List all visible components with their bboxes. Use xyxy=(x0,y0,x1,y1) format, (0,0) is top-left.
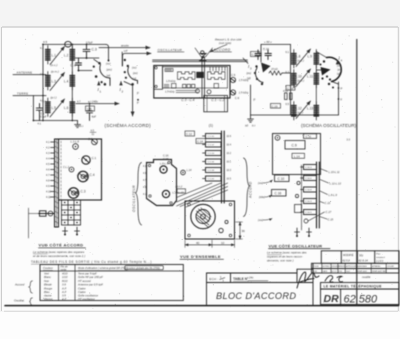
svg-text:C.9: C.9 xyxy=(292,143,297,147)
wire: left vertical bus xyxy=(42,44,44,120)
svg-text:Blindé: Blindé xyxy=(44,283,52,287)
svg-text:C.10.5: C.10.5 xyxy=(305,212,312,214)
svg-text:(vis): (vis) xyxy=(258,181,263,185)
drawing frame bottom line xyxy=(5,305,398,307)
svg-text:L.12-L.13: L.12-L.13 xyxy=(330,181,342,185)
svg-text:sortie: sortie xyxy=(61,268,68,271)
wire: terre rail xyxy=(13,95,46,97)
left end cap xyxy=(154,66,163,90)
node P xyxy=(338,87,340,89)
svg-text:2.2.F.3: 2.2.F.3 xyxy=(375,260,384,263)
small parts left of stack xyxy=(297,181,300,184)
svg-text:C.19: C.19 xyxy=(272,104,278,108)
svg-text:Terre par 5 kpF: Terre par 5 kpF xyxy=(78,272,97,276)
note ensemble line 2 boxed xyxy=(125,266,164,270)
top right screw circle xyxy=(92,139,98,145)
panel outline xyxy=(273,134,321,175)
svg-text:TERRE: TERRE xyxy=(17,92,28,96)
svg-text:4.1: 4.1 xyxy=(38,123,42,126)
svg-text:OSCILLATEUR: OSCILLATEUR xyxy=(158,48,183,52)
svg-text:3.9: 3.9 xyxy=(62,283,66,287)
svg-text:1,5 kΩ/g: 1,5 kΩ/g xyxy=(165,91,175,94)
terminal strip xyxy=(55,139,59,227)
svg-text:Rouge: Rouge xyxy=(44,286,53,290)
capacitor C16 xyxy=(265,50,271,60)
wire: AT rail with arrow xyxy=(76,103,119,105)
dimension lines bottom xyxy=(185,240,235,248)
switch I3 dots xyxy=(255,65,257,67)
screw circle B xyxy=(162,190,169,197)
svg-text:P: P xyxy=(341,87,343,91)
svg-text:C.1.20: C.1.20 xyxy=(208,179,215,181)
svg-text:4.5: 4.5 xyxy=(46,163,50,166)
svg-text:ACCORD: ACCORD xyxy=(249,181,253,199)
svg-text:C.16: C.16 xyxy=(263,47,269,51)
svg-text:Vu: Vu xyxy=(359,254,363,258)
svg-text:C.17: C.17 xyxy=(326,210,332,214)
svg-text:4.5: 4.5 xyxy=(43,40,48,44)
capacitor C1 xyxy=(36,104,42,121)
bottom trimmer T4 xyxy=(307,228,312,236)
svg-text:L.13: L.13 xyxy=(307,107,313,111)
svg-text:C.1.10: C.1.10 xyxy=(208,136,215,138)
svg-text:L.8-L.9: L.8-L.9 xyxy=(160,162,169,166)
wire top rail xyxy=(261,43,291,45)
svg-text:(pm): (pm) xyxy=(106,68,112,72)
svg-text:C.12: C.12 xyxy=(186,132,192,136)
terminal block below panel xyxy=(62,200,81,225)
svg-text:62.5.9: 62.5.9 xyxy=(343,259,351,263)
wire tube down right xyxy=(338,82,340,115)
svg-text:LE MATÉRIEL TÉLÉPHONIQUE: LE MATÉRIEL TÉLÉPHONIQUE xyxy=(324,284,383,289)
svg-text:10.3: 10.3 xyxy=(227,170,232,172)
ground b.t xyxy=(75,121,81,128)
svg-text:Vert: Vert xyxy=(44,272,49,276)
inductor L5 xyxy=(46,98,51,117)
svg-text:C.10.8: C.10.8 xyxy=(305,190,312,192)
coil stack rails xyxy=(316,162,318,228)
junction dots xyxy=(33,44,91,122)
svg-text:C.1.14: C.1.14 xyxy=(208,153,215,155)
C10 box xyxy=(275,175,290,182)
svg-text:REMPLACÉ PAR :: REMPLACÉ PAR : xyxy=(372,270,387,273)
pointer lines to center post xyxy=(195,48,201,57)
svg-text:C.4: C.4 xyxy=(71,64,76,68)
dimension right xyxy=(236,222,243,239)
switch I4 wedge xyxy=(321,67,331,76)
capacitor C5 xyxy=(87,108,93,121)
svg-text:b.t: b.t xyxy=(252,124,255,128)
right side pin labels xyxy=(227,136,232,181)
small circle center xyxy=(181,170,186,175)
svg-text:C.13: C.13 xyxy=(325,201,331,205)
capacitor C15 label box xyxy=(251,52,260,57)
svg-text:4.1: 4.1 xyxy=(46,141,50,144)
svg-text:C.3: C.3 xyxy=(92,48,97,52)
capacitor C4 circle xyxy=(78,171,88,181)
inductor L3 xyxy=(46,72,51,91)
svg-text:6.3: 6.3 xyxy=(286,71,290,74)
tuning arrow L1/L2 xyxy=(50,47,65,65)
svg-text:62.6.14: 62.6.14 xyxy=(359,258,369,262)
svg-text:L.8-L.9: L.8-L.9 xyxy=(329,193,338,197)
svg-text:L.14: L.14 xyxy=(294,154,300,158)
svg-text:Cadre: Cadre xyxy=(78,286,86,290)
svg-text:F: F xyxy=(254,98,256,102)
screw circle A xyxy=(160,166,167,173)
svg-text:8/10: 8/10 xyxy=(62,279,68,283)
svg-text:C.15: C.15 xyxy=(163,157,169,161)
center shaft vertical xyxy=(201,57,203,98)
svg-text:A.F: A.F xyxy=(61,290,67,294)
wire: antenne rail xyxy=(13,74,46,76)
table rows xyxy=(44,272,103,302)
tuning shaft big circle xyxy=(191,204,215,228)
svg-text:APPROUVÉ: APPROUVÉ xyxy=(346,265,357,268)
svg-text:HT: HT xyxy=(124,49,128,53)
svg-text:L.1-L.6: L.1-L.6 xyxy=(71,140,80,144)
tuning arrow L12/L13 xyxy=(296,101,311,119)
svg-text:(oc): (oc) xyxy=(132,66,137,70)
row2 row3 tiny texts xyxy=(313,265,395,273)
inductor L11 xyxy=(314,70,319,89)
small coil circle xyxy=(73,144,79,150)
capacitor C18 box xyxy=(286,86,295,91)
C9 box xyxy=(285,141,305,150)
svg-text:M.PRES: M.PRES xyxy=(323,266,331,268)
tuning arrow L8/L9 xyxy=(296,49,311,67)
svg-text:BLOC D'ACCORD: BLOC D'ACCORD xyxy=(216,291,296,301)
svg-text:4.9: 4.9 xyxy=(46,185,50,188)
svg-text:(tôle): (tôle) xyxy=(259,195,265,199)
svg-text:3.5: 3.5 xyxy=(62,294,66,298)
svg-text:24c: 24c xyxy=(248,275,254,279)
svg-text:L.6: L.6 xyxy=(64,106,69,110)
svg-text:(gl): (gl) xyxy=(247,77,251,80)
bottom trimmer T1 xyxy=(63,227,68,234)
shaft left xyxy=(39,213,55,215)
svg-text:TABLE N°: TABLE N° xyxy=(233,277,249,281)
svg-text:C.5: C.5 xyxy=(231,73,236,77)
wire: HT arrow line xyxy=(123,53,152,66)
svg-text:4.11: 4.11 xyxy=(143,194,148,196)
svg-text:6.1: 6.1 xyxy=(286,51,290,54)
switch I1 wiper line xyxy=(94,59,100,63)
svg-text:36: 36 xyxy=(242,229,246,233)
plate corner holes xyxy=(148,164,150,166)
svg-text:(gl): (gl) xyxy=(337,73,341,76)
svg-text:L.9: L.9 xyxy=(308,55,313,59)
panel outline xyxy=(59,139,102,200)
svg-text:(oc): (oc) xyxy=(337,65,341,68)
top-left hole xyxy=(275,135,280,140)
inductor L13 xyxy=(314,102,319,121)
right meander block xyxy=(208,72,226,80)
brace right xyxy=(244,158,250,217)
svg-text:C.L.2: C.L.2 xyxy=(63,166,70,169)
capacitor C4 xyxy=(76,58,82,71)
bottom white strip xyxy=(0,312,400,339)
wire: second left vertical xyxy=(32,96,34,121)
capacitor C3 circle xyxy=(68,188,78,198)
wire: anode arrow line to oscillator stage xyxy=(99,47,150,49)
svg-text:F: F xyxy=(341,98,343,102)
svg-text:4/10: 4/10 xyxy=(62,272,68,276)
svg-text:(oc): (oc) xyxy=(106,61,111,65)
L14 label xyxy=(292,153,305,158)
svg-text:C.3: C.3 xyxy=(81,190,86,194)
ground bottom left xyxy=(248,115,254,122)
svg-text:F: F xyxy=(137,92,139,96)
wire resistor to bus xyxy=(282,72,291,74)
svg-text:C.16: C.16 xyxy=(275,192,282,196)
wire top to I2 xyxy=(121,52,123,66)
bottom trimmer T3 xyxy=(295,228,300,236)
tuning arrow L5/L6 xyxy=(50,99,65,117)
svg-text:ECH :: ECH : xyxy=(209,277,218,281)
svg-text:modifié: modifié xyxy=(362,275,371,279)
small circle L xyxy=(69,167,74,172)
svg-text:4.5: 4.5 xyxy=(43,101,47,104)
dial drum box xyxy=(204,96,228,112)
svg-text:Grille oscillatrice: Grille oscillatrice xyxy=(78,294,98,298)
tuning arrow L3/L4 xyxy=(50,73,65,91)
svg-text:Mode d'utilisation ( schéma gl: Mode d'utilisation ( schéma global DR 27… xyxy=(78,267,128,270)
svg-text:b.t: b.t xyxy=(80,124,83,128)
title block outline lines xyxy=(207,251,400,306)
svg-text:1,5 kΩ/g: 1,5 kΩ/g xyxy=(166,80,176,83)
stack modules xyxy=(203,134,222,182)
switch I1 contact dots xyxy=(98,62,101,65)
svg-text:DR: DR xyxy=(324,293,340,305)
svg-text:(SCHÉMA OSCILLATEUR): (SCHÉMA OSCILLATEUR) xyxy=(301,122,357,128)
center dark block xyxy=(196,72,204,78)
table column lines xyxy=(58,265,60,301)
svg-text:4.10: 4.10 xyxy=(46,191,51,194)
svg-text:ACCORD: ACCORD xyxy=(213,48,231,52)
table header rule xyxy=(40,270,183,272)
svg-text:C.1.18: C.1.18 xyxy=(208,170,215,172)
page left edge shadow xyxy=(1,27,3,311)
svg-text:VUE CÔTÉ OSCILLATEUR: VUE CÔTÉ OSCILLATEUR xyxy=(269,243,323,248)
svg-text:10.5: 10.5 xyxy=(227,179,232,181)
screw circle left xyxy=(196,89,200,93)
svg-text:(couleur globale des fils 2700: (couleur globale des fils 2700) xyxy=(126,267,160,270)
svg-text:Cadre: Cadre xyxy=(78,290,86,294)
svg-text:Antenne par 0,5 kpF: Antenne par 0,5 kpF xyxy=(77,283,103,287)
svg-text:4.7: 4.7 xyxy=(77,99,81,103)
top label box C14 xyxy=(196,139,206,144)
svg-text:1,5 kΩ/g: 1,5 kΩ/g xyxy=(239,92,249,95)
wire: right vertical bus of coils xyxy=(71,44,73,120)
svg-text:4.8: 4.8 xyxy=(46,180,50,183)
wire: top rail corner down xyxy=(106,44,109,60)
C16 box xyxy=(272,190,287,197)
svg-text:C.10: C.10 xyxy=(278,177,285,181)
svg-text:±0: ±0 xyxy=(245,124,249,128)
svg-text:4.7: 4.7 xyxy=(46,174,50,177)
svg-text:C.1: C.1 xyxy=(92,156,97,160)
panel inner dashed edge xyxy=(60,141,62,199)
svg-text:C.2: C.2 xyxy=(88,137,93,141)
svg-text:4µF: 4µF xyxy=(92,115,97,119)
wire left down xyxy=(250,85,252,115)
svg-text:C.1 - C.2: C.1 - C.2 xyxy=(211,98,224,102)
wire grid to I4 xyxy=(316,69,322,71)
left meander block xyxy=(178,72,196,80)
svg-text:OSCILLATEUR: OSCILLATEUR xyxy=(132,185,136,212)
rotary switch I2 arc xyxy=(128,67,138,84)
svg-text:VUE CÔTÉ ACCORD: VUE CÔTÉ ACCORD xyxy=(39,243,84,248)
table outer box xyxy=(40,265,183,301)
svg-text:(pl): (pl) xyxy=(106,73,110,77)
selector wedge xyxy=(261,63,271,73)
svg-text:C.4: C.4 xyxy=(90,173,95,177)
svg-text:UTILISÉ: UTILISÉ xyxy=(387,265,395,268)
svg-text:Couleur: Couleur xyxy=(43,266,54,270)
svg-text:(p.l.): (p.l.) xyxy=(50,96,56,100)
wire down to C5 xyxy=(89,104,91,108)
svg-text:C.10.4: C.10.4 xyxy=(305,167,312,169)
circle C1 xyxy=(82,156,90,164)
svg-text:(voir note): (voir note) xyxy=(219,41,231,45)
wire bottom rail xyxy=(251,114,339,116)
resistor R1 zigzag xyxy=(269,71,282,75)
chassis outer box xyxy=(154,66,230,99)
svg-text:A.F: A.F xyxy=(61,286,67,290)
inductor L4 xyxy=(70,72,75,91)
tall terminal stack rails xyxy=(221,131,223,203)
svg-text:+ 80 v: + 80 v xyxy=(264,40,272,44)
svg-text:4.2: 4.2 xyxy=(40,46,44,50)
bottom trimmer T2 xyxy=(75,227,80,234)
terminal pins xyxy=(51,142,55,197)
shaft dimension line xyxy=(28,208,30,238)
rotary switch I3 arc xyxy=(255,68,263,83)
right trimmer C6 xyxy=(230,90,235,95)
svg-text:(po): (po) xyxy=(246,72,251,75)
svg-text:C.1.12: C.1.12 xyxy=(208,145,215,147)
svg-text:HT accord: HT accord xyxy=(78,279,91,283)
svg-text:Jaune: Jaune xyxy=(44,294,52,298)
svg-text:(po): (po) xyxy=(133,71,138,75)
svg-text:10.2: 10.2 xyxy=(227,153,232,155)
svg-text:L.5: L.5 xyxy=(52,106,57,110)
svg-text:Vérif.: Vérif. xyxy=(346,271,351,273)
svg-text:C.3 - C.4: C.3 - C.4 xyxy=(181,98,194,102)
page bottom edge shadow xyxy=(4,310,398,312)
svg-text:4.6: 4.6 xyxy=(46,169,50,172)
label C5 xyxy=(86,106,95,111)
svg-text:Plan: Plan xyxy=(376,254,381,256)
svg-text:Oscillat.: Oscillat. xyxy=(14,299,25,303)
node dot xyxy=(78,70,80,72)
svg-text:4.2: 4.2 xyxy=(46,147,50,150)
switch I4 dots xyxy=(323,60,325,62)
svg-text:L.4: L.4 xyxy=(64,80,69,84)
svg-text:6.5: 6.5 xyxy=(286,103,290,106)
trimmer row squares xyxy=(183,84,186,87)
svg-text:L.10-L.11: L.10-L.11 xyxy=(329,170,341,174)
svg-text:(gl): (gl) xyxy=(133,77,137,81)
stack tiny labels xyxy=(305,167,312,214)
svg-text:C.6: C.6 xyxy=(235,96,240,100)
svg-text:DATE: DATE xyxy=(323,270,328,273)
svg-text:(p.o.): (p.o.) xyxy=(297,79,304,83)
svg-text:ANTENNE: ANTENNE xyxy=(17,71,33,75)
svg-text:APPAREIL:: APPAREIL: xyxy=(372,265,382,268)
svg-text:15 kΩ: 15 kΩ xyxy=(271,68,278,71)
svg-text:10.4: 10.4 xyxy=(227,145,232,147)
svg-text:L.11: L.11 xyxy=(307,75,313,79)
wire: bottom rail xyxy=(33,120,77,122)
wire I2 down xyxy=(124,82,133,117)
svg-text:4.5: 4.5 xyxy=(91,129,95,133)
svg-text:C.10.6: C.10.6 xyxy=(305,178,312,180)
tube dots xyxy=(326,75,328,77)
svg-text:C.15: C.15 xyxy=(328,217,334,221)
wire second coil column vertical xyxy=(315,51,317,115)
svg-text:remplacé: remplacé xyxy=(376,256,386,259)
capacitor C19 box xyxy=(271,104,281,109)
inductor L10 xyxy=(292,70,297,89)
svg-text:L.1: L.1 xyxy=(52,54,57,58)
svg-text:3.3: 3.3 xyxy=(347,139,351,142)
svg-text:C.14: C.14 xyxy=(197,140,203,144)
svg-text:(p.m.): (p.m.) xyxy=(51,70,59,74)
svg-text:HT oscillateur: HT oscillateur xyxy=(78,297,96,301)
svg-text:(1): (1) xyxy=(209,124,213,128)
svg-text:4.4: 4.4 xyxy=(46,158,50,161)
svg-text:dements, voir note ): dements, voir note ) xyxy=(267,259,294,263)
node dot xyxy=(86,57,88,59)
svg-text:62 580: 62 580 xyxy=(344,293,379,305)
resistor R3 small xyxy=(290,93,293,100)
svg-text:40: 40 xyxy=(196,241,200,245)
wire: antenna top rail xyxy=(43,43,106,45)
scan noise speckles xyxy=(11,32,396,308)
svg-text:(po): (po) xyxy=(337,69,342,72)
svg-text:C.11: C.11 xyxy=(306,135,312,139)
chassis corner screws xyxy=(188,203,191,206)
svg-text:MODIFIÉ: MODIFIÉ xyxy=(343,254,354,257)
stack left rail xyxy=(301,165,303,230)
inductor L6 xyxy=(70,98,75,117)
pin labels xyxy=(46,141,51,199)
svg-text:10: 10 xyxy=(221,241,225,245)
left plate pin labels xyxy=(143,166,148,196)
svg-text:Grille HF par 180 pF: Grille HF par 180 pF xyxy=(78,275,103,279)
svg-text:62.5.9: 62.5.9 xyxy=(332,271,337,273)
svg-text:L.14: L.14 xyxy=(187,169,192,172)
svg-text:10.1: 10.1 xyxy=(227,162,232,164)
center post spring xyxy=(200,54,206,61)
top label box C12 xyxy=(185,131,195,136)
svg-text:A.F: A.F xyxy=(61,297,67,301)
chassis inner box xyxy=(163,67,228,88)
svg-text:(g.l.): (g.l.) xyxy=(298,111,304,115)
rotary switch I1 arc xyxy=(100,65,110,86)
svg-text:Blanc: Blanc xyxy=(44,275,52,279)
svg-text:R.M.: R.M. xyxy=(339,271,343,273)
chassis internal hatch details xyxy=(164,67,225,93)
wire to I4 top xyxy=(316,52,326,58)
svg-text:TABLEAU DES FILS DE SORTIE: TABLEAU DES FILS DE SORTIE ( fils Cu éta… xyxy=(31,260,152,264)
svg-text:F: F xyxy=(137,101,139,105)
signature 2 xyxy=(325,276,343,283)
inductor L8 xyxy=(292,50,297,69)
svg-text:Accord: Accord xyxy=(14,282,25,286)
